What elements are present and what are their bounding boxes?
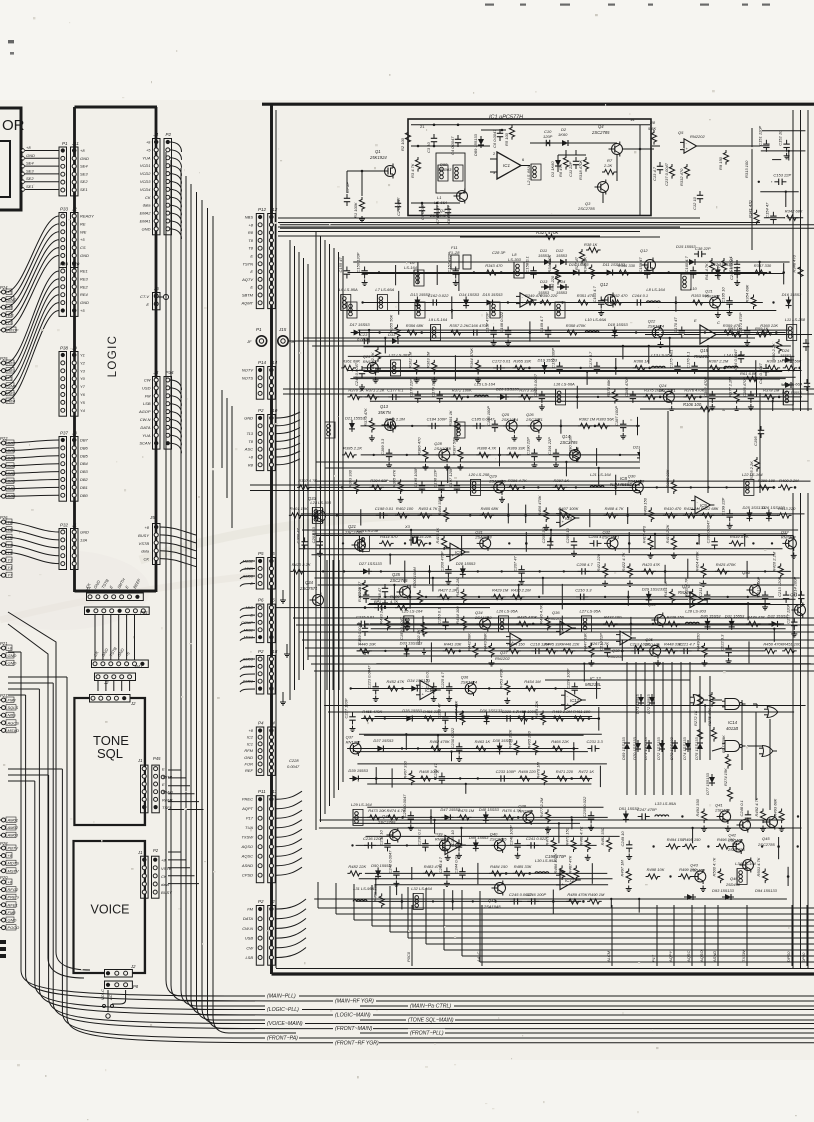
svg-text:P0C0: P0C0 xyxy=(406,951,411,962)
svg-text:R341 470: R341 470 xyxy=(748,200,753,218)
svg-text:C191 22P: C191 22P xyxy=(547,437,552,455)
svg-text:R478 2.2K: R478 2.2K xyxy=(545,826,550,845)
svg-text:R420 2.2K: R420 2.2K xyxy=(292,562,311,567)
svg-text:R379 47K: R379 47K xyxy=(363,408,368,426)
svg-text:+8: +8 xyxy=(8,853,13,858)
svg-text:R274 15K: R274 15K xyxy=(723,768,728,786)
svg-text:D13: D13 xyxy=(540,279,548,284)
svg-text:AQPT: AQPT xyxy=(241,806,253,811)
svg-text:C226 100P: C226 100P xyxy=(566,668,571,688)
svg-text:15553: 15553 xyxy=(556,253,568,258)
svg-text:R106 100: R106 100 xyxy=(683,402,702,407)
svg-text:13A: 13A xyxy=(80,537,87,542)
svg-text:IC1: IC1 xyxy=(503,163,511,168)
svg-text:USD: USD xyxy=(142,385,151,390)
svg-text:E: E xyxy=(250,285,253,290)
svg-text:Q34: Q34 xyxy=(305,580,314,585)
svg-text:FM: FM xyxy=(247,907,253,912)
svg-text:R452 47K: R452 47K xyxy=(387,679,405,684)
svg-text:R405 68K: R405 68K xyxy=(481,506,499,511)
svg-text:Q36: Q36 xyxy=(552,610,560,615)
svg-text:IC2: IC2 xyxy=(247,735,254,740)
svg-text:RN1202: RN1202 xyxy=(705,294,720,299)
svg-text:R397 1K: R397 1K xyxy=(554,478,570,483)
svg-text:C185 0.0047: C185 0.0047 xyxy=(472,416,496,421)
svg-text:P2: P2 xyxy=(153,848,159,853)
svg-text:TXSW: TXSW xyxy=(741,949,746,962)
svg-text:R446 22K: R446 22K xyxy=(562,641,580,646)
svg-text:15553: 15553 xyxy=(556,290,568,295)
svg-text:SE2: SE2 xyxy=(80,179,88,184)
svg-text:AQSC: AQSC xyxy=(686,951,691,963)
svg-text:D30 15S53: D30 15S53 xyxy=(701,613,722,618)
svg-text:R362 1M: R362 1M xyxy=(408,351,413,368)
svg-text:R445 33K: R445 33K xyxy=(544,641,562,646)
svg-text:P17: P17 xyxy=(246,816,254,821)
svg-text:REF: REF xyxy=(245,768,254,773)
svg-text:DB4: DB4 xyxy=(80,461,89,466)
svg-text:AQMT: AQMT xyxy=(240,300,253,305)
svg-text:AQTV: AQTV xyxy=(241,277,253,282)
svg-text:D28 15553: D28 15553 xyxy=(456,561,476,566)
svg-text:R8: R8 xyxy=(248,230,254,235)
svg-text:P34: P34 xyxy=(166,370,175,375)
svg-text:C221 4.7: C221 4.7 xyxy=(679,641,696,646)
svg-text:D49 15553: D49 15553 xyxy=(469,835,489,840)
svg-text:R431 1K: R431 1K xyxy=(663,581,668,597)
svg-text:TUA: TUA xyxy=(245,825,253,830)
svg-text:FM: FM xyxy=(145,393,151,398)
svg-text:MSTV: MSTV xyxy=(8,868,19,873)
svg-text:R372 100K: R372 100K xyxy=(452,387,472,392)
svg-text:J1: J1 xyxy=(137,850,142,855)
svg-text:R428 2.2M: R428 2.2M xyxy=(455,577,460,597)
svg-text:L17 LS-66A: L17 LS-66A xyxy=(781,381,802,386)
svg-text:C181 470P: C181 470P xyxy=(624,377,629,397)
svg-text:(FRONT~PA): (FRONT~PA) xyxy=(267,1036,298,1042)
svg-text:C46 0.0047: C46 0.0047 xyxy=(733,349,738,370)
svg-text:+5: +5 xyxy=(80,237,85,242)
svg-text:R395 47K: R395 47K xyxy=(392,469,397,487)
svg-text:PBTV: PBTV xyxy=(8,846,19,851)
svg-text:R2 100: R2 100 xyxy=(400,137,405,151)
svg-text:C238 0.1: C238 0.1 xyxy=(416,829,421,845)
svg-text:713: 713 xyxy=(246,431,253,436)
svg-text:Y1: Y1 xyxy=(8,565,13,570)
svg-text:E: E xyxy=(162,782,165,787)
svg-text:DB3: DB3 xyxy=(80,469,89,474)
svg-text:(LOGIC~PLL): (LOGIC~PLL) xyxy=(267,1007,299,1013)
svg-text:CK: CK xyxy=(145,195,151,200)
svg-text:C4 0.0047: C4 0.0047 xyxy=(450,136,455,155)
svg-text:RFE1: RFE1 xyxy=(8,902,18,907)
svg-text:R6 47K: R6 47K xyxy=(558,163,563,177)
svg-text:SE4: SE4 xyxy=(26,161,34,166)
svg-text:C217 120P: C217 120P xyxy=(785,603,790,623)
svg-text:(TONE SQL~MAIN): (TONE SQL~MAIN) xyxy=(408,1018,454,1024)
svg-text:2SA1048: 2SA1048 xyxy=(433,446,451,451)
svg-text:2SA1048: 2SA1048 xyxy=(488,478,506,483)
svg-text:D27 15553: D27 15553 xyxy=(782,390,802,395)
svg-text:C151 120P: C151 120P xyxy=(757,125,762,145)
svg-text:AM01: AM01 xyxy=(7,818,18,823)
svg-text:Q5: Q5 xyxy=(678,130,684,135)
svg-text:R457 33K: R457 33K xyxy=(453,700,458,718)
svg-text:CW-N: CW-N xyxy=(140,417,151,422)
svg-text:D74 1SS133: D74 1SS133 xyxy=(682,737,687,760)
svg-text:L10 LS-66A: L10 LS-66A xyxy=(585,317,606,322)
svg-text:D15 15553: D15 15553 xyxy=(676,244,696,249)
svg-text:+8: +8 xyxy=(26,145,31,150)
svg-text:R461 100: R461 100 xyxy=(573,709,591,714)
svg-text:R493 68K: R493 68K xyxy=(773,798,778,816)
svg-text:R438 150: R438 150 xyxy=(667,614,685,619)
svg-text:P12: P12 xyxy=(258,207,267,212)
svg-text:C178 22P: C178 22P xyxy=(409,379,414,397)
svg-text:R442 68K: R442 68K xyxy=(466,633,471,651)
svg-text:R488 330: R488 330 xyxy=(373,883,378,901)
svg-text:C198 470P: C198 470P xyxy=(545,854,566,859)
svg-text:C173 100P: C173 100P xyxy=(551,348,556,368)
svg-text:C244 0.01: C244 0.01 xyxy=(453,855,458,873)
svg-text:R418 2.2K: R418 2.2K xyxy=(665,524,670,543)
svg-text:R423 47K: R423 47K xyxy=(642,562,660,567)
svg-text:SE2: SE2 xyxy=(26,176,34,181)
svg-text:DB7: DB7 xyxy=(80,438,89,443)
svg-text:Q37: Q37 xyxy=(500,650,508,655)
svg-text:2SK1924: 2SK1924 xyxy=(501,417,519,422)
svg-text:R485 33K: R485 33K xyxy=(514,864,532,869)
svg-text:Y5: Y5 xyxy=(80,400,86,405)
svg-text:R386 470: R386 470 xyxy=(416,437,421,455)
svg-text:P4: P4 xyxy=(258,721,264,726)
svg-text:D14 15S53: D14 15S53 xyxy=(459,292,480,297)
svg-text:+8: +8 xyxy=(144,525,149,530)
svg-text:R382 1M: R382 1M xyxy=(579,416,596,421)
svg-text:T8: T8 xyxy=(248,246,253,251)
svg-text:C180 0.0047: C180 0.0047 xyxy=(533,373,538,397)
svg-text:R318 470K: R318 470K xyxy=(578,160,583,180)
svg-text:RE1: RE1 xyxy=(80,269,88,274)
svg-text:R462 470K: R462 470K xyxy=(430,739,450,744)
svg-text:AGCS: AGCS xyxy=(7,720,20,725)
svg-text:Y1: Y1 xyxy=(80,353,85,358)
svg-text:R380 2.2M: R380 2.2M xyxy=(385,416,405,421)
svg-text:CW-N: CW-N xyxy=(242,926,253,931)
svg-text:C158 0.1: C158 0.1 xyxy=(525,256,530,272)
svg-text:P33: P33 xyxy=(60,207,69,212)
svg-text:C225 4.7: C225 4.7 xyxy=(440,671,445,688)
svg-text:C243 4.7: C243 4.7 xyxy=(438,856,443,873)
svg-text:2SD468: 2SD468 xyxy=(727,838,743,843)
svg-text:BP: BP xyxy=(374,599,380,604)
svg-text:RN2204: RN2204 xyxy=(678,590,694,595)
svg-text:VSTB: VSTB xyxy=(139,541,150,546)
svg-text:DB5: DB5 xyxy=(80,453,89,458)
svg-text:C161 0.1: C161 0.1 xyxy=(728,256,733,272)
svg-text:EMA1: EMA1 xyxy=(140,219,151,224)
svg-text:P5: P5 xyxy=(258,551,264,556)
svg-text:R501 4.7K: R501 4.7K xyxy=(756,857,761,876)
svg-text:C237 10: C237 10 xyxy=(378,829,383,845)
svg-text:R8: R8 xyxy=(650,120,656,125)
svg-text:R1 100K: R1 100K xyxy=(353,202,358,218)
svg-text:R492 4.7K: R492 4.7K xyxy=(754,797,759,816)
svg-text:SCAN: SCAN xyxy=(139,441,150,446)
svg-text:Q33: Q33 xyxy=(308,496,317,501)
svg-text:J15: J15 xyxy=(278,327,287,332)
svg-text:R273 39K: R273 39K xyxy=(721,735,726,753)
svg-text:C205 0.0047: C205 0.0047 xyxy=(706,520,711,544)
svg-text:IC13: IC13 xyxy=(450,843,460,848)
svg-text:+8: +8 xyxy=(80,148,85,153)
svg-text:14: 14 xyxy=(630,117,635,122)
svg-text:data: data xyxy=(143,203,152,208)
svg-text:1K60: 1K60 xyxy=(558,132,568,137)
svg-text:TXSW: TXSW xyxy=(241,835,254,840)
svg-text:C3 10: C3 10 xyxy=(426,142,431,153)
svg-text:Q21: Q21 xyxy=(348,524,356,529)
svg-text:AQSO: AQSO xyxy=(240,844,253,849)
svg-text:D93 155133: D93 155133 xyxy=(712,888,735,893)
svg-text:P2: P2 xyxy=(258,649,264,654)
svg-text:C163 4.7: C163 4.7 xyxy=(592,286,597,303)
svg-text:DATA: DATA xyxy=(243,916,253,921)
svg-text:R419 4.7K: R419 4.7K xyxy=(730,534,749,539)
svg-text:JF: JF xyxy=(246,339,252,344)
svg-text:AQPY: AQPY xyxy=(668,951,673,963)
svg-text:R275 47K: R275 47K xyxy=(707,708,712,726)
svg-text:SE3: SE3 xyxy=(26,168,34,173)
svg-text:Y3: Y3 xyxy=(8,558,14,563)
svg-text:LOGIC: LOGIC xyxy=(107,335,119,378)
svg-text:Q38: Q38 xyxy=(612,648,620,653)
svg-text:DB0: DB0 xyxy=(80,493,89,498)
svg-text:+8: +8 xyxy=(248,728,253,733)
svg-text:D37 15S53: D37 15S53 xyxy=(373,738,394,743)
svg-text:DB6: DB6 xyxy=(80,445,89,450)
svg-text:C177 0.1: C177 0.1 xyxy=(387,387,403,392)
svg-text:NOTS: NOTS xyxy=(242,375,253,380)
svg-text:EMA2: EMA2 xyxy=(140,211,152,216)
svg-text:C12 10: C12 10 xyxy=(692,196,697,210)
svg-text:CT-V: CT-V xyxy=(140,294,149,299)
svg-text:R383 56K: R383 56K xyxy=(596,416,614,421)
svg-text:4011B: 4011B xyxy=(726,726,738,731)
svg-text:R454 1M: R454 1M xyxy=(524,679,541,684)
svg-text:R495 150: R495 150 xyxy=(683,837,701,842)
svg-text:D29 1SS133: D29 1SS133 xyxy=(642,586,665,591)
svg-text:R388 4.7K: R388 4.7K xyxy=(477,445,496,450)
svg-text:R392 4.7K: R392 4.7K xyxy=(298,478,317,483)
svg-text:R364 470K: R364 470K xyxy=(469,348,474,368)
svg-text:R9 150: R9 150 xyxy=(718,156,723,170)
svg-text:E: E xyxy=(250,269,253,274)
svg-text:C160 4.7: C160 4.7 xyxy=(684,256,689,273)
svg-text:DB2: DB2 xyxy=(80,477,89,482)
svg-text:TSTN: TSTN xyxy=(243,261,254,266)
svg-text:R414 470: R414 470 xyxy=(380,534,398,539)
svg-text:R346 330: R346 330 xyxy=(618,263,636,268)
svg-text:D33: D33 xyxy=(388,332,396,337)
svg-text:ASND: ASND xyxy=(712,951,717,963)
svg-text:R355 56K: R355 56K xyxy=(388,314,393,332)
svg-text:C186 100P: C186 100P xyxy=(486,406,491,426)
svg-text:R450 470K: R450 470K xyxy=(763,641,783,646)
svg-text:C167 470P: C167 470P xyxy=(485,312,490,332)
svg-text:R366 1K: R366 1K xyxy=(634,358,650,363)
svg-text:C235 0.022: C235 0.022 xyxy=(582,796,587,817)
svg-text:C154 47: C154 47 xyxy=(764,202,769,218)
svg-text:LSB: LSB xyxy=(143,401,151,406)
svg-text:T8: T8 xyxy=(248,238,253,243)
svg-text:R342 68K: R342 68K xyxy=(785,208,803,213)
svg-text:R479 150: R479 150 xyxy=(564,827,569,845)
svg-text:R358 470K: R358 470K xyxy=(566,323,586,328)
svg-text:R80 2.2K: R80 2.2K xyxy=(370,352,375,369)
svg-text:GND: GND xyxy=(80,300,89,305)
svg-text:VOICE: VOICE xyxy=(91,903,130,917)
svg-text:Y4: Y4 xyxy=(80,408,86,413)
svg-text:OR: OR xyxy=(2,117,25,134)
svg-text:BUSY: BUSY xyxy=(138,533,149,538)
svg-text:D77 155133: D77 155133 xyxy=(705,772,710,795)
svg-text:X3: X3 xyxy=(404,524,411,529)
svg-text:LS-164: LS-164 xyxy=(404,265,418,270)
svg-text:C182 470P: C182 470P xyxy=(703,377,708,397)
svg-text:Q1: Q1 xyxy=(375,149,381,154)
svg-text:Q70: Q70 xyxy=(682,584,691,589)
svg-text:R93 1K: R93 1K xyxy=(728,326,742,331)
svg-text:R422 4.7K: R422 4.7K xyxy=(621,552,626,571)
svg-text:R396 4.7K: R396 4.7K xyxy=(508,478,527,483)
svg-text:C159 0.0047: C159 0.0047 xyxy=(357,621,362,645)
svg-text:C211 47: C211 47 xyxy=(698,581,703,597)
svg-text:2SD468: 2SD468 xyxy=(689,868,705,873)
svg-text:AQSC: AQSC xyxy=(241,854,253,859)
svg-text:R425 470K: R425 470K xyxy=(716,562,736,567)
svg-text:C197 120P: C197 120P xyxy=(448,467,453,487)
svg-text:C38 22P: C38 22P xyxy=(695,246,711,251)
svg-text:(FRONT~MAIN): (FRONT~MAIN) xyxy=(335,1026,373,1032)
svg-text:C11 22P: C11 22P xyxy=(568,161,573,177)
svg-text:R313 100: R313 100 xyxy=(744,160,749,178)
svg-text:GND: GND xyxy=(26,153,35,158)
svg-text:(FRONT~PLL): (FRONT~PLL) xyxy=(410,1031,444,1037)
svg-text:CS: CS xyxy=(80,245,86,250)
svg-text:2SC7571: 2SC7571 xyxy=(525,417,543,422)
svg-text:RE4: RE4 xyxy=(80,292,89,297)
svg-text:L10: L10 xyxy=(690,286,697,291)
svg-text:R398 33K: R398 33K xyxy=(665,469,670,487)
svg-text:R498 10K: R498 10K xyxy=(647,867,665,872)
svg-text:D94 155133: D94 155133 xyxy=(755,888,778,893)
svg-text:D69 1SS133: D69 1SS133 xyxy=(621,737,626,760)
svg-text:PREC: PREC xyxy=(242,797,253,802)
svg-text:C184 100P: C184 100P xyxy=(427,416,447,421)
svg-text:0.0047: 0.0047 xyxy=(287,764,300,769)
svg-text:CK: CK xyxy=(143,557,149,562)
svg-text:GND: GND xyxy=(80,530,89,535)
svg-text:R472 1K: R472 1K xyxy=(579,769,595,774)
svg-text:(VOICE~MAIN): (VOICE~MAIN) xyxy=(267,1021,303,1027)
svg-text:IC12: IC12 xyxy=(425,688,435,693)
svg-text:P11: P11 xyxy=(258,789,266,794)
svg-text:C203 10: C203 10 xyxy=(565,527,570,543)
svg-text:RN1202: RN1202 xyxy=(346,740,361,745)
svg-text:R500 4.7K: R500 4.7K xyxy=(712,857,717,876)
svg-text:P2: P2 xyxy=(258,899,264,904)
svg-text:2SD468: 2SD468 xyxy=(714,808,730,813)
svg-text:D27 1SS133: D27 1SS133 xyxy=(359,561,382,566)
svg-text:R394 68K: R394 68K xyxy=(370,478,388,483)
svg-text:C183 470P: C183 470P xyxy=(742,377,747,397)
svg-text:P6: P6 xyxy=(258,598,264,603)
svg-text:R371 2.2K: R371 2.2K xyxy=(366,387,385,392)
svg-text:R434 100: R434 100 xyxy=(455,606,460,624)
svg-text:R38 1K: R38 1K xyxy=(584,242,598,247)
svg-text:P1: P1 xyxy=(62,141,68,146)
svg-text:21: 21 xyxy=(420,124,425,129)
svg-text:L16 LS-66A: L16 LS-66A xyxy=(554,381,575,386)
svg-text:RFG2: RFG2 xyxy=(8,887,19,892)
svg-text:DATA: DATA xyxy=(140,425,150,430)
svg-text:C208 4.7: C208 4.7 xyxy=(577,562,594,567)
svg-text:R482 22K: R482 22K xyxy=(348,864,366,869)
svg-text:READY: READY xyxy=(80,214,94,219)
svg-text:GND: GND xyxy=(80,253,89,258)
svg-text:D15 15S53: D15 15S53 xyxy=(483,292,504,297)
svg-text:Q12: Q12 xyxy=(600,282,609,287)
svg-text:C233 100P: C233 100P xyxy=(496,769,516,774)
svg-text:C169 4.7: C169 4.7 xyxy=(539,316,544,333)
svg-text:NBS: NBS xyxy=(8,713,17,718)
svg-text:D75 1SS133: D75 1SS133 xyxy=(694,737,699,760)
svg-text:2SC2785: 2SC2785 xyxy=(389,578,408,583)
svg-text:R490 1M: R490 1M xyxy=(588,892,605,897)
svg-text:SE3: SE3 xyxy=(80,171,88,176)
svg-text:2SC2785: 2SC2785 xyxy=(377,820,396,825)
svg-text:R363 1M: R363 1M xyxy=(425,351,430,368)
svg-text:R406 470K: R406 470K xyxy=(537,495,542,515)
svg-text:P37: P37 xyxy=(60,431,69,436)
svg-text:E: E xyxy=(146,302,149,307)
svg-text:R200 100M: R200 100M xyxy=(412,567,417,588)
svg-text:P32: P32 xyxy=(60,523,69,528)
svg-text:L8 LS-164: L8 LS-164 xyxy=(646,287,665,292)
svg-text:AQSO: AQSO xyxy=(699,950,704,963)
svg-text:YUA: YUA xyxy=(142,433,151,438)
svg-text:GND: GND xyxy=(8,661,17,666)
svg-text:C175 0.01: C175 0.01 xyxy=(668,350,673,368)
svg-text:E: E xyxy=(250,254,253,259)
svg-text:R8: R8 xyxy=(248,462,254,467)
svg-text:IC14: IC14 xyxy=(728,720,738,725)
svg-text:2SA1048: 2SA1048 xyxy=(474,615,492,620)
svg-text:C195: C195 xyxy=(753,436,758,446)
svg-text:R327 470K: R327 470K xyxy=(536,230,560,235)
svg-text:Q41: Q41 xyxy=(790,592,798,597)
svg-text:5.6K: 5.6K xyxy=(648,126,657,131)
svg-text:data: data xyxy=(141,549,150,554)
svg-text:SE1: SE1 xyxy=(26,184,34,189)
svg-text:C237 0.0047: C237 0.0047 xyxy=(664,162,669,186)
svg-text:R402 100: R402 100 xyxy=(396,506,414,511)
svg-text:L22 LS-164: L22 LS-164 xyxy=(742,472,763,477)
svg-text:2SC2785: 2SC2785 xyxy=(559,440,578,445)
svg-text:R433 2.2M: R433 2.2M xyxy=(379,604,384,624)
svg-text:C179 10: C179 10 xyxy=(431,381,436,397)
